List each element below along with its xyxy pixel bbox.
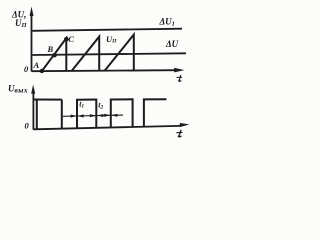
svg-text:A: A: [33, 60, 40, 70]
svg-text:UП: UП: [106, 34, 117, 45]
svg-text:Uвых: Uвых: [8, 84, 28, 95]
svg-text:ΔU: ΔU: [165, 39, 179, 49]
svg-text:B: B: [47, 44, 54, 54]
svg-text:ΔU1: ΔU1: [159, 16, 175, 27]
svg-text:t1: t1: [79, 100, 84, 110]
svg-text:0: 0: [24, 64, 29, 74]
svg-text:0: 0: [25, 120, 30, 130]
svg-text:UП: UП: [15, 18, 28, 29]
svg-text:t2: t2: [98, 101, 103, 111]
svg-text:C: C: [68, 34, 74, 44]
